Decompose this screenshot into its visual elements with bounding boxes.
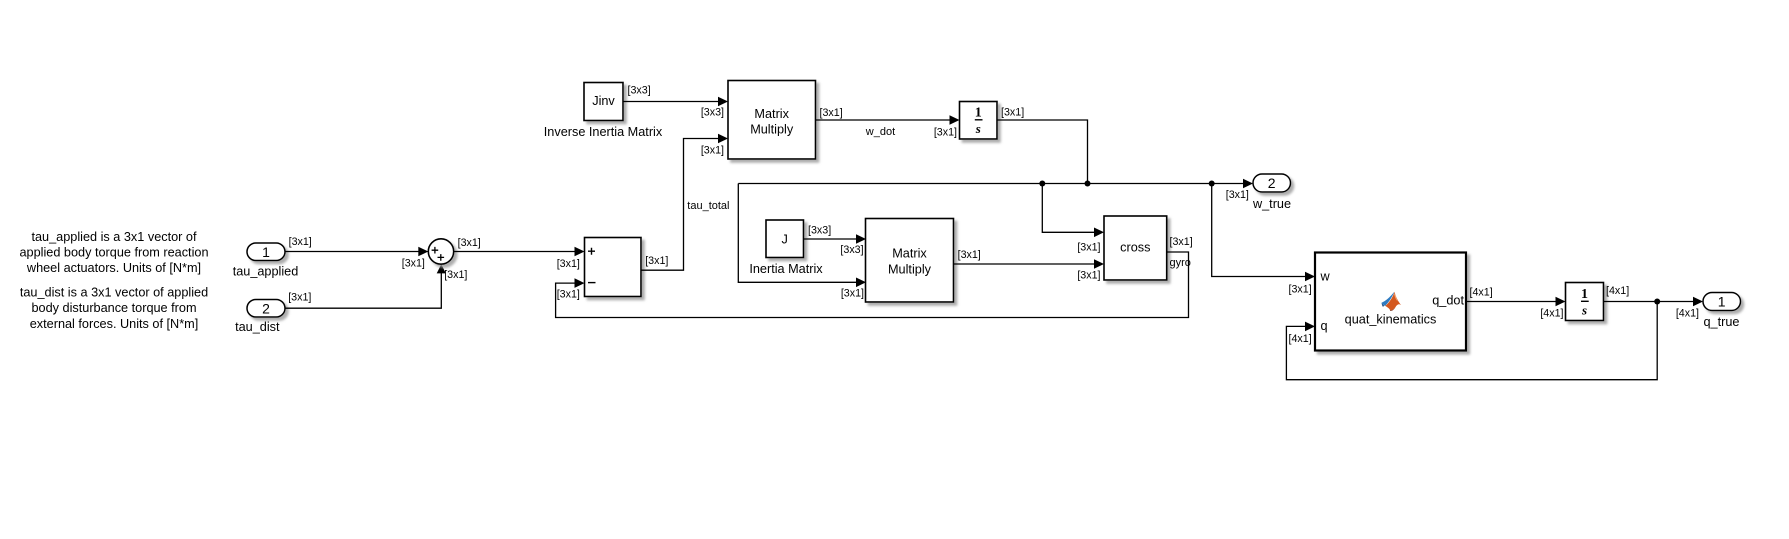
junction node at quat w drop (1209, 181, 1215, 187)
svg-text:[3x1]: [3x1] (841, 288, 864, 300)
svg-text:2: 2 (262, 300, 270, 316)
sum1 round sum block (428, 239, 453, 264)
svg-text:quat_kinematics: quat_kinematics (1345, 313, 1437, 327)
svg-text:[3x1]: [3x1] (289, 236, 312, 248)
svg-text:1: 1 (262, 244, 270, 260)
svg-text:[3x1]: [3x1] (958, 249, 981, 261)
wire integrator1 output to w line (997, 120, 1088, 184)
svg-text:1: 1 (975, 106, 982, 121)
svg-text:[3x1]: [3x1] (1226, 189, 1249, 201)
svg-text:[3x1]: [3x1] (934, 126, 957, 138)
svg-text:tau_applied is a 3x1 vector of: tau_applied is a 3x1 vector of (31, 230, 197, 244)
wire w line down to MM2 input2 (738, 184, 866, 288)
wire MM2 to cross input2 (954, 259, 1105, 269)
svg-text:s: s (975, 121, 981, 136)
svg-text:J: J (782, 232, 788, 246)
outport 1 q_true (1703, 293, 1741, 330)
MATLAB logo inside quat block (1382, 292, 1402, 311)
svg-text:2: 2 (1268, 175, 1276, 191)
wire integrator2 to outport1 (1604, 297, 1704, 307)
svg-text:Inertia Matrix: Inertia Matrix (749, 262, 823, 276)
svg-text:body disturbance torque from: body disturbance torque from (31, 301, 196, 315)
svg-text:[4x1]: [4x1] (1289, 333, 1312, 345)
svg-text:[4x1]: [4x1] (1470, 287, 1493, 299)
cross block (1104, 216, 1167, 280)
svg-text:Matrix: Matrix (892, 247, 927, 261)
junction node at cross drop (1039, 181, 1045, 187)
svg-text:[3x1]: [3x1] (820, 107, 843, 119)
svg-text:tau_applied: tau_applied (233, 265, 299, 279)
integrator1 1/s (960, 102, 998, 140)
MM2 Matrix Multiply block (bottom) (866, 219, 954, 303)
svg-text:[3x3]: [3x3] (701, 107, 724, 119)
svg-text:s: s (1581, 303, 1587, 318)
constant block J (749, 220, 823, 276)
svg-text:[3x1]: [3x1] (645, 255, 668, 267)
wire quat output (q_dot) to integrator2 (1466, 297, 1566, 307)
inport 1 tau_applied (233, 243, 299, 279)
svg-text:[3x1]: [3x1] (1289, 284, 1312, 296)
svg-text:[3x3]: [3x3] (840, 244, 863, 256)
svg-text:[3x1]: [3x1] (557, 258, 580, 270)
svg-text:[4x1]: [4x1] (1606, 285, 1629, 297)
svg-text:Multiply: Multiply (750, 123, 794, 137)
svg-text:[3x1]: [3x1] (701, 145, 724, 157)
wire MM1 to integrator1 (w_dot) (816, 115, 960, 125)
svg-text:q_dot: q_dot (1432, 294, 1464, 308)
svg-text:[3x1]: [3x1] (1170, 236, 1193, 248)
svg-text:Inverse Inertia Matrix: Inverse Inertia Matrix (544, 125, 663, 139)
svg-text:[3x3]: [3x3] (808, 224, 831, 236)
wire q feedback to quat q input (1286, 302, 1657, 380)
svg-text:[4x1]: [4x1] (1676, 308, 1699, 320)
svg-text:w_dot: w_dot (865, 126, 895, 138)
wire sum2 output (tau_total) to MM1 input2 (641, 134, 728, 271)
svg-text:[3x1]: [3x1] (458, 237, 481, 249)
svg-text:external forces. Units of [N*m: external forces. Units of [N*m] (30, 317, 199, 331)
svg-text:[3x1]: [3x1] (288, 292, 311, 304)
svg-text:Jinv: Jinv (592, 94, 615, 108)
svg-text:w: w (1320, 270, 1331, 284)
svg-text:Multiply: Multiply (888, 262, 932, 276)
svg-text:q: q (1321, 319, 1328, 333)
junction node at integrator1 drop (1085, 181, 1091, 187)
junction node q_true feedback (1654, 299, 1660, 305)
svg-text:tau_total: tau_total (687, 200, 729, 212)
wire inport2 to sum1 bottom (285, 264, 446, 308)
svg-text:[3x3]: [3x3] (628, 85, 651, 97)
wire inport1 to sum1 (285, 247, 428, 257)
svg-text:q_true: q_true (1704, 315, 1740, 329)
MM1 Matrix Multiply block (top) (728, 81, 816, 160)
wire w line down to cross input1 (1042, 184, 1104, 238)
svg-text:cross: cross (1120, 241, 1150, 255)
svg-text:w_true: w_true (1252, 197, 1291, 211)
sum2 rectangular sum block (585, 238, 642, 297)
wire w line (main horizontal) to outport2 (738, 179, 1253, 189)
wire sum1 to sum2 (454, 247, 585, 257)
wire Jinv to MM1 input1 (623, 97, 728, 107)
svg-text:tau_dist: tau_dist (235, 320, 280, 334)
quat_kinematics MATLAB function block (1315, 253, 1466, 351)
wire J to MM2 input1 (804, 234, 867, 244)
wire w line down to quat w input (1212, 184, 1315, 282)
outport 2 w_true (1252, 174, 1291, 211)
svg-text:1: 1 (1718, 294, 1726, 310)
inport 2 tau_dist (235, 300, 285, 335)
svg-text:[3x1]: [3x1] (1077, 270, 1100, 282)
svg-text:[3x1]: [3x1] (1077, 242, 1100, 254)
svg-text:applied body torque from react: applied body torque from reaction (19, 246, 208, 260)
svg-text:[3x1]: [3x1] (402, 257, 425, 269)
wire cross output (gyro) feedback to sum2 minus (556, 252, 1189, 318)
svg-text:[3x1]: [3x1] (444, 269, 467, 281)
svg-text:Matrix: Matrix (754, 107, 789, 121)
svg-text:wheel actuators. Units of [N*m: wheel actuators. Units of [N*m] (26, 261, 201, 275)
constant block Jinv (544, 83, 663, 140)
svg-text:[4x1]: [4x1] (1540, 307, 1563, 319)
svg-text:[3x1]: [3x1] (1001, 106, 1024, 118)
svg-text:1: 1 (1581, 287, 1588, 302)
svg-text:[3x1]: [3x1] (557, 289, 580, 301)
svg-text:tau_dist is a 3x1 vector of ap: tau_dist is a 3x1 vector of applied (20, 286, 208, 300)
integrator2 1/s (1566, 283, 1604, 321)
annotation text describing inputs (19, 230, 208, 331)
svg-text:gyro: gyro (1170, 257, 1191, 269)
